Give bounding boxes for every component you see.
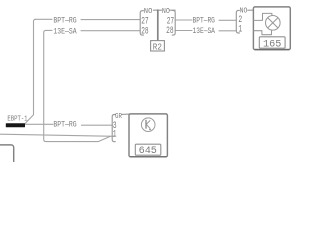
svg-text:EBPT-1: EBPT-1 bbox=[7, 115, 27, 123]
svg-text:28: 28 bbox=[141, 26, 149, 37]
svg-text:28: 28 bbox=[166, 26, 174, 37]
svg-text:BPT—RG: BPT—RG bbox=[53, 17, 76, 26]
svg-text:13E—SA: 13E—SA bbox=[193, 28, 216, 37]
svg-text:1: 1 bbox=[238, 25, 242, 36]
svg-text:NO: NO bbox=[144, 8, 153, 16]
svg-text:1: 1 bbox=[113, 130, 117, 141]
svg-text:BPT—RG: BPT—RG bbox=[53, 121, 76, 130]
svg-text:645: 645 bbox=[139, 145, 157, 157]
svg-text:165: 165 bbox=[263, 38, 281, 50]
svg-text:R2: R2 bbox=[153, 42, 162, 53]
svg-text:BPT—RG: BPT—RG bbox=[193, 17, 215, 26]
svg-text:13E—SA: 13E—SA bbox=[53, 28, 77, 37]
svg-text:NO: NO bbox=[162, 8, 170, 16]
svg-text:GR: GR bbox=[115, 112, 122, 120]
